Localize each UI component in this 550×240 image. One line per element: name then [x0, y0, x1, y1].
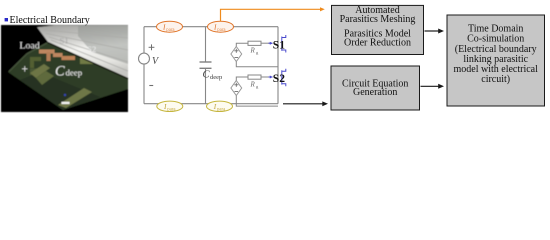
photo minus bar	[62, 102, 70, 104]
svg-text:para: para	[167, 108, 176, 113]
svg-text:para: para	[166, 28, 175, 33]
slab top-right shading	[78, 25, 128, 64]
green board plane	[8, 42, 128, 110]
long diagonal trace bottom	[58, 88, 92, 108]
current probe ellipse I3 (bottom-left, yellow)	[157, 101, 183, 111]
svg-text:+: +	[22, 64, 29, 76]
dependent source D2 (diamond)	[231, 81, 242, 96]
box: Circuit Equation Generation	[331, 66, 420, 110]
copper staircase trace (bright)	[39, 50, 55, 54]
svg-text:deep: deep	[210, 74, 222, 81]
wire: left rail	[143, 27, 145, 54]
wire: capacitor branch lower	[205, 68, 207, 103]
gate drive loop 1 wires	[236, 43, 278, 67]
black arrow circuit to equation box	[283, 103, 324, 105]
legend bullet (blue square)	[5, 18, 8, 21]
arrow equation box to co-simulation box	[421, 85, 441, 87]
olive L-trace left	[30, 57, 41, 68]
current probe ellipse I4 (bottom-right, yellow)	[207, 101, 233, 111]
resistor Rg2	[248, 75, 261, 79]
box: Automated Parasitics Meshing / Parasitics Model Order Reduction	[332, 5, 424, 54]
capacitor C_deep plates	[200, 62, 212, 68]
resistor Rg1	[248, 41, 261, 45]
svg-text:C: C	[55, 64, 65, 80]
svg-text:Electrical Boundary: Electrical Boundary	[10, 15, 90, 26]
svg-text:circuit): circuit)	[481, 74, 510, 85]
wire: bottom rail	[144, 103, 278, 105]
wire: capacitor branch upper	[205, 27, 207, 62]
copper pad right of C	[80, 58, 93, 64]
box: Time Domain Co-simulation	[447, 15, 545, 106]
MOSFET S1 (blue glyph)	[269, 35, 286, 53]
svg-text:para: para	[217, 28, 226, 33]
current probe ellipse I2 (top-right, orange)	[208, 21, 234, 32]
wire: top rail	[144, 26, 278, 28]
svg-text:Generation: Generation	[353, 87, 397, 98]
board top-left edge highlight	[9, 43, 47, 72]
svg-text:Load: Load	[20, 41, 40, 52]
svg-text:S2: S2	[87, 44, 96, 54]
svg-text:S1: S1	[273, 39, 285, 51]
voltage source V1	[139, 53, 150, 64]
svg-text:R: R	[250, 47, 256, 55]
svg-text:Order Reduction: Order Reduction	[344, 37, 411, 48]
dependent source D1 (diamond)	[231, 47, 242, 62]
arrow meshing box to co-simulation box	[425, 30, 441, 32]
blue dot	[64, 94, 66, 96]
white busbar slab	[37, 25, 128, 78]
svg-text:S1: S1	[60, 36, 69, 46]
svg-text:S2: S2	[273, 73, 285, 85]
svg-text:R: R	[250, 80, 256, 88]
minus mark of source	[149, 85, 153, 87]
svg-text:deep: deep	[66, 68, 83, 78]
MOSFET S2 (blue glyph)	[269, 69, 286, 87]
slab bottom shadow edge	[48, 43, 128, 79]
svg-text:para: para	[217, 108, 226, 113]
photo background	[1, 25, 128, 112]
orange probe arrow to meshing box	[221, 9, 321, 21]
svg-text:Parasitics Meshing: Parasitics Meshing	[340, 14, 416, 25]
plus mark of source	[149, 44, 155, 50]
board darker lower region	[20, 72, 100, 110]
wire: right rail	[277, 27, 279, 104]
gate drive loop 2 wires	[236, 77, 278, 106]
slab lamination seams	[44, 30, 128, 71]
current probe ellipse I1 (top-left, orange)	[157, 21, 183, 32]
olive trace lower-left	[30, 64, 50, 78]
